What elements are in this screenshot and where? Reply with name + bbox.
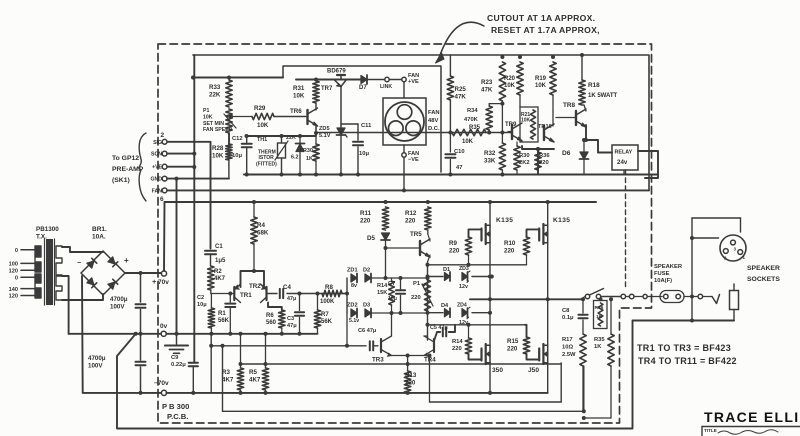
svg-text:8v: 8v bbox=[351, 283, 357, 289]
wire upper gate bias line bbox=[428, 263, 527, 267]
svg-text:ISTOR: ISTOR bbox=[259, 155, 275, 161]
capacitor C3 47u bbox=[287, 292, 304, 336]
svg-text:D1: D1 bbox=[443, 267, 450, 273]
wire pin GND to R28 bbox=[167, 177, 229, 181]
svg-text:K135: K135 bbox=[553, 217, 570, 224]
svg-text:R3: R3 bbox=[222, 369, 230, 376]
svg-text:120: 120 bbox=[9, 294, 18, 300]
terminal 0V bbox=[160, 323, 168, 336]
svg-text:R14: R14 bbox=[452, 339, 463, 345]
svg-text:−70v: −70v bbox=[154, 380, 169, 387]
capacitor C4 47u bbox=[280, 284, 296, 302]
capacitor 4700u 100V upper label bbox=[110, 296, 128, 310]
svg-text:12v: 12v bbox=[459, 284, 468, 290]
wire pin FAN long line bbox=[167, 188, 649, 192]
svg-text:10K: 10K bbox=[257, 122, 269, 129]
title TRACE ELLIOT bbox=[704, 409, 800, 425]
wire thermistor network top bbox=[245, 134, 317, 138]
svg-text:220: 220 bbox=[411, 295, 421, 301]
svg-text:P1: P1 bbox=[413, 281, 421, 287]
svg-text:+VE: +VE bbox=[152, 165, 162, 171]
wire TR7 emitter node to C11 bbox=[341, 123, 358, 125]
resistor R19 10K bbox=[535, 55, 556, 112]
svg-text:C4: C4 bbox=[283, 284, 291, 291]
diode D1 bbox=[443, 267, 450, 281]
svg-text:−: − bbox=[77, 260, 81, 267]
wire TR1 base bbox=[211, 290, 233, 294]
transistor TR9 bbox=[505, 122, 522, 141]
wire bridge - output to -70V rail bbox=[82, 276, 117, 393]
relay coil box bbox=[612, 145, 638, 170]
wire signal line TR2 to ladder bbox=[267, 293, 348, 295]
resistor R12 220 bbox=[405, 207, 431, 230]
resistor R7 56K bbox=[314, 292, 332, 334]
wire lower gate bias line bbox=[428, 323, 525, 327]
svg-text:220: 220 bbox=[452, 346, 462, 352]
svg-text:FAN: FAN bbox=[428, 110, 440, 116]
PB300 PCB dashed border outline bbox=[158, 44, 652, 423]
svg-text:R1: R1 bbox=[218, 311, 226, 317]
svg-text:TR1 TO TR3 = BF423: TR1 TO TR3 = BF423 bbox=[637, 343, 731, 353]
diode ZD1 bbox=[347, 268, 358, 283]
svg-text:BR1.: BR1. bbox=[92, 226, 107, 233]
svg-text:TR1: TR1 bbox=[240, 292, 252, 299]
svg-text:ZD3: ZD3 bbox=[459, 266, 469, 272]
wire TR3 base reference line bbox=[209, 313, 366, 393]
svg-text:1K: 1K bbox=[306, 156, 313, 162]
wire relay return hook bbox=[638, 151, 658, 178]
svg-text:R4: R4 bbox=[257, 222, 265, 229]
resistor R18 1K 5WATT bbox=[579, 53, 618, 105]
wire secondary bottom to bridge bbox=[62, 294, 103, 300]
wire upper bias line bbox=[384, 276, 430, 280]
svg-text:350: 350 bbox=[492, 367, 503, 374]
resistor R20 10K bbox=[504, 55, 523, 107]
svg-text:10K: 10K bbox=[462, 139, 474, 145]
svg-text:RESET AT 1.7A APPROX,: RESET AT 1.7A APPROX, bbox=[491, 25, 600, 35]
svg-text:D3: D3 bbox=[363, 303, 370, 309]
MOSFET K135 upper left bbox=[482, 217, 514, 244]
fan motor box bbox=[383, 98, 426, 145]
svg-text:48V: 48V bbox=[428, 118, 438, 124]
svg-text:R5: R5 bbox=[249, 369, 257, 376]
ground symbol bbox=[165, 334, 188, 354]
svg-text:10K: 10K bbox=[504, 83, 516, 89]
svg-text:R7: R7 bbox=[321, 312, 329, 318]
svg-text:0v: 0v bbox=[160, 323, 168, 330]
svg-text:R35: R35 bbox=[594, 337, 605, 343]
svg-text:4700μ: 4700μ bbox=[88, 355, 106, 362]
resistor R35 10K bbox=[452, 125, 486, 145]
wire speaker socket feed bbox=[692, 218, 741, 297]
capacitor C7 10u bbox=[388, 278, 405, 315]
svg-text:C9: C9 bbox=[171, 355, 179, 361]
svg-text:CUTOUT AT 1A APPROX.: CUTOUT AT 1A APPROX. bbox=[487, 13, 595, 23]
svg-text:BD679: BD679 bbox=[327, 69, 346, 75]
resistor R31 10K bbox=[293, 78, 319, 104]
svg-text:5.1v: 5.1v bbox=[349, 318, 359, 324]
svg-text:4K7: 4K7 bbox=[222, 376, 234, 383]
svg-text:5.1V: 5.1V bbox=[319, 133, 331, 139]
capacitor C9 0.22u bbox=[171, 355, 198, 395]
diode D7 bbox=[355, 75, 384, 91]
svg-text:220: 220 bbox=[539, 160, 549, 166]
wire secondary top to bridge bbox=[62, 247, 103, 252]
capacitor C8 0.1u bbox=[562, 297, 588, 334]
transformer primary windings bbox=[35, 246, 41, 298]
svg-text:TR3: TR3 bbox=[372, 357, 384, 364]
wire -70V rail bbox=[166, 391, 547, 395]
svg-text:TITLE: TITLE bbox=[704, 428, 717, 433]
wire K135-1 drain and source bbox=[488, 200, 492, 301]
svg-text:To GP12: To GP12 bbox=[112, 155, 139, 162]
wire -70V feed bbox=[117, 392, 162, 394]
diode ZD2 bbox=[347, 303, 358, 318]
capacitor C5 47u bbox=[430, 325, 455, 341]
svg-text:56K: 56K bbox=[218, 318, 230, 324]
svg-text:70v: 70v bbox=[158, 279, 169, 286]
diode D4 bbox=[441, 303, 450, 317]
zener ZD6 6.2V bbox=[286, 134, 305, 177]
wire upper diode line bbox=[428, 275, 494, 279]
resistor R29 10K bbox=[229, 105, 305, 129]
svg-text:100: 100 bbox=[9, 262, 18, 268]
svg-text:R18: R18 bbox=[588, 82, 600, 89]
transistor TR7 BD679 bbox=[321, 69, 347, 128]
wire feedback drop left bbox=[221, 344, 225, 412]
resistor R14 220 bbox=[452, 325, 482, 360]
svg-text:SPEAKER: SPEAKER bbox=[654, 264, 683, 270]
svg-text:47K: 47K bbox=[481, 86, 493, 93]
capacitor C13 4700u 100V upper bbox=[136, 271, 146, 336]
wire +70V riser to top rail bbox=[163, 202, 166, 271]
link connector speaker line bbox=[621, 294, 662, 299]
svg-text:33K: 33K bbox=[484, 157, 496, 164]
svg-text:K135: K135 bbox=[496, 217, 513, 224]
wire bridge + output to +70V terminal bbox=[125, 272, 162, 274]
svg-text:0: 0 bbox=[15, 275, 18, 281]
svg-text:220: 220 bbox=[449, 247, 460, 254]
svg-text:120: 120 bbox=[9, 269, 18, 275]
terminal -70V bbox=[154, 380, 169, 396]
svg-text:1μ5: 1μ5 bbox=[215, 258, 226, 264]
svg-text:R10: R10 bbox=[504, 240, 516, 247]
svg-text:10K: 10K bbox=[203, 114, 213, 120]
svg-text:R25: R25 bbox=[455, 86, 467, 93]
wire output node line bbox=[470, 298, 581, 300]
svg-text:D6: D6 bbox=[562, 150, 571, 157]
capacitor C11 10u bbox=[353, 123, 372, 175]
svg-text:10K: 10K bbox=[212, 152, 224, 159]
svg-text:J50: J50 bbox=[528, 367, 539, 374]
svg-text:1K: 1K bbox=[596, 314, 603, 320]
resistor R28 10K bbox=[212, 144, 232, 179]
svg-text:47K: 47K bbox=[455, 93, 467, 100]
svg-text:10μ: 10μ bbox=[388, 296, 397, 302]
svg-text:2.5W: 2.5W bbox=[562, 352, 576, 358]
svg-text:100V: 100V bbox=[88, 362, 103, 369]
svg-text:R36: R36 bbox=[539, 153, 550, 159]
svg-text:10μ: 10μ bbox=[232, 153, 242, 159]
capacitor C14 4700u 100V lower bbox=[136, 334, 146, 395]
wire fan circuit bottom rail bbox=[244, 173, 658, 177]
connector brace bbox=[139, 133, 146, 201]
resistor R33 22K bbox=[209, 80, 232, 107]
svg-text:R2: R2 bbox=[214, 269, 222, 275]
svg-text:4700μ: 4700μ bbox=[110, 296, 128, 303]
svg-text:TR6: TR6 bbox=[290, 108, 302, 115]
svg-text:C7: C7 bbox=[388, 281, 395, 287]
svg-text:C1: C1 bbox=[215, 244, 223, 250]
speaker fuse 10A bbox=[660, 291, 698, 303]
svg-text:ZD4: ZD4 bbox=[457, 303, 467, 309]
capacitor C1 1u5 bbox=[205, 244, 226, 266]
speaker DIN socket bbox=[720, 235, 746, 261]
diode ZD4 bbox=[457, 303, 470, 327]
resistor R11 220 bbox=[360, 207, 389, 230]
svg-text:R20: R20 bbox=[504, 76, 516, 82]
svg-text:TR8: TR8 bbox=[563, 102, 576, 109]
fan sub-circuit box bbox=[283, 66, 441, 172]
svg-text:0.22μ: 0.22μ bbox=[171, 362, 186, 368]
svg-text:C8: C8 bbox=[562, 308, 570, 314]
svg-text:PB1300: PB1300 bbox=[36, 226, 59, 233]
jack plug symbol bbox=[712, 295, 720, 304]
svg-text:R30: R30 bbox=[519, 153, 530, 159]
svg-text:470K: 470K bbox=[464, 117, 479, 123]
svg-text:C6 47μ: C6 47μ bbox=[358, 328, 377, 334]
svg-text:1K 5WATT: 1K 5WATT bbox=[588, 93, 618, 99]
svg-text:SET MIN: SET MIN bbox=[203, 121, 224, 127]
svg-text:C12: C12 bbox=[232, 136, 243, 142]
wire TR3 TR4 emitter join bbox=[392, 354, 425, 358]
svg-text:SIG: SIG bbox=[153, 140, 162, 146]
preset P1 10K fan speed bbox=[203, 108, 236, 133]
MOSFET J50 lower right bbox=[528, 344, 548, 374]
wire TR7 collector line bbox=[296, 79, 361, 81]
wire feedback line B bbox=[241, 362, 562, 366]
bridge rectifier BR1 bbox=[77, 251, 129, 295]
svg-text:6.2: 6.2 bbox=[291, 155, 299, 161]
wire feedback line lower bbox=[223, 366, 584, 411]
connector SK1 pins 2-6 bbox=[150, 132, 167, 203]
svg-text:22K: 22K bbox=[286, 135, 296, 141]
svg-text:R31: R31 bbox=[293, 85, 305, 92]
transistor TR2 bbox=[249, 283, 267, 303]
resistor R5 4K7 bbox=[249, 332, 269, 395]
svg-text:100K: 100K bbox=[320, 299, 335, 305]
outer solid box of power amp board bbox=[193, 55, 649, 190]
terminal FAN -VE bbox=[402, 145, 419, 190]
preset P2 220 bbox=[411, 280, 433, 311]
label speaker sockets bbox=[747, 265, 780, 283]
wire TR1 TR2 emitter loop bbox=[241, 244, 265, 287]
wire ladder input junction bbox=[342, 292, 349, 296]
capacitor 4700u 100V lower label bbox=[88, 355, 106, 369]
svg-text:TR4 TO TR11 = BF422: TR4 TO TR11 = BF422 bbox=[638, 356, 737, 366]
resistor R15 220 bbox=[507, 325, 539, 360]
thermistor TH1 bbox=[256, 134, 288, 177]
capacitor C6 47u bbox=[358, 328, 377, 350]
svg-text:R16: R16 bbox=[595, 305, 604, 311]
resistor R30a 1K bbox=[303, 127, 319, 177]
svg-text:47μ: 47μ bbox=[287, 296, 296, 302]
terminal FAN +VE bbox=[402, 73, 419, 98]
wire 0V rail bbox=[166, 332, 317, 336]
resistor R3 4K7 bbox=[222, 332, 244, 395]
svg-text:R13: R13 bbox=[405, 372, 417, 379]
svg-text:220: 220 bbox=[405, 217, 416, 224]
svg-text:D.C.: D.C. bbox=[428, 126, 440, 132]
capacitor C12 10u bbox=[232, 136, 252, 177]
svg-text:68K: 68K bbox=[257, 229, 269, 236]
svg-text:SOCKETS: SOCKETS bbox=[747, 276, 780, 283]
wire pin +VE bbox=[167, 166, 194, 168]
bridge rectifier BR1 label bbox=[92, 226, 107, 241]
wire TR9 TR10 emitters bbox=[522, 146, 554, 175]
svg-text:TR5: TR5 bbox=[410, 231, 422, 238]
svg-text:TR7: TR7 bbox=[321, 86, 333, 92]
svg-text:TH1: TH1 bbox=[257, 137, 267, 143]
svg-text:10μ: 10μ bbox=[197, 302, 207, 308]
svg-text:P B 300: P B 300 bbox=[162, 402, 189, 411]
resistor R36 220 bbox=[535, 147, 551, 175]
MOSFET J50 lower left bbox=[482, 344, 504, 374]
svg-text:P.C.B.: P.C.B. bbox=[167, 412, 188, 421]
svg-text:TR9: TR9 bbox=[505, 122, 517, 128]
wire secondary centre tap to 0V rail bbox=[62, 276, 69, 334]
label To GP12 PREAMP SK1 bbox=[112, 155, 144, 184]
resistor R4 68K bbox=[251, 202, 269, 244]
wire TR5 emitter to gate line bbox=[426, 262, 430, 340]
svg-text:100V: 100V bbox=[110, 303, 125, 310]
wire fuse to jack bbox=[690, 294, 712, 322]
svg-text:−VE: −VE bbox=[408, 157, 419, 163]
svg-text:ZD1: ZD1 bbox=[347, 268, 358, 274]
svg-text:R15: R15 bbox=[507, 338, 519, 345]
svg-text:R6: R6 bbox=[266, 313, 274, 319]
svg-text:R11: R11 bbox=[360, 210, 372, 217]
svg-text:47μ: 47μ bbox=[287, 323, 297, 329]
svg-text:10K: 10K bbox=[293, 92, 305, 99]
svg-text:10Ω: 10Ω bbox=[562, 345, 573, 351]
svg-text:1K: 1K bbox=[594, 344, 602, 350]
transformer primary taps with voltage labels bbox=[9, 248, 35, 300]
svg-text:P1: P1 bbox=[203, 108, 209, 114]
svg-text:C2: C2 bbox=[197, 295, 204, 301]
transistor TR8 bbox=[556, 102, 586, 127]
resistor R34 470K bbox=[464, 104, 492, 135]
resistor R16 1K boxed bbox=[594, 297, 608, 328]
svg-text:10A(F): 10A(F) bbox=[654, 278, 672, 284]
svg-text:FUSE: FUSE bbox=[654, 271, 670, 277]
wire source line lower bbox=[430, 363, 562, 402]
diode D3 bbox=[349, 303, 428, 325]
svg-text:47: 47 bbox=[456, 165, 462, 171]
capacitor C2 10u bbox=[197, 292, 235, 336]
wire TR2 collector bbox=[268, 303, 282, 311]
resistor R6 560 bbox=[266, 310, 285, 336]
svg-text:D7: D7 bbox=[359, 85, 367, 91]
transistor TR10 bbox=[538, 112, 554, 142]
svg-text:10K: 10K bbox=[535, 83, 547, 89]
transistor TR1 bbox=[234, 284, 252, 303]
svg-text:(FITTED): (FITTED) bbox=[256, 162, 277, 168]
svg-text:0.1μ: 0.1μ bbox=[562, 315, 574, 321]
svg-text:ZD5: ZD5 bbox=[319, 126, 330, 132]
resistor R8 100K bbox=[320, 284, 342, 305]
svg-text:R14: R14 bbox=[377, 283, 388, 289]
transistor TR3 bbox=[372, 313, 392, 364]
capacitor C10 47u bbox=[445, 131, 464, 175]
svg-text:R28: R28 bbox=[212, 145, 224, 152]
terminal +70V bbox=[152, 271, 169, 286]
resistor R25 47K bbox=[447, 55, 466, 133]
svg-text:D2: D2 bbox=[363, 268, 370, 274]
wire relay bottom to rail bbox=[623, 170, 625, 175]
svg-text:4K7: 4K7 bbox=[214, 276, 226, 282]
wire pin SCN to screen line bbox=[167, 153, 194, 155]
resistor R17 10R 2.5W bbox=[562, 334, 586, 413]
svg-text:C11: C11 bbox=[361, 123, 372, 129]
svg-text:220: 220 bbox=[507, 345, 518, 352]
wire top rail left segment bbox=[191, 76, 283, 80]
resistor R32 33K bbox=[484, 133, 506, 175]
svg-text:R9: R9 bbox=[449, 240, 457, 247]
svg-text:R17: R17 bbox=[562, 337, 573, 343]
svg-text:R29: R29 bbox=[254, 105, 266, 112]
diode D5 bbox=[367, 233, 390, 278]
zener ZD5 5.1V bbox=[319, 126, 347, 175]
svg-text:140: 140 bbox=[9, 287, 18, 293]
MOSFET K135 upper right bbox=[539, 217, 570, 244]
svg-text:LINK: LINK bbox=[380, 84, 392, 90]
transformer secondary windings bbox=[56, 246, 62, 300]
label speaker fuse bbox=[654, 264, 683, 284]
svg-text:4K7: 4K7 bbox=[249, 376, 261, 383]
fan motor symbol bbox=[385, 102, 424, 141]
svg-text:R30: R30 bbox=[303, 148, 313, 154]
svg-text:24v: 24v bbox=[617, 159, 628, 166]
svg-text:+: + bbox=[152, 277, 157, 286]
diode D6 relay bbox=[562, 138, 589, 175]
svg-text:R19: R19 bbox=[535, 76, 547, 82]
transistor TR6 bbox=[290, 103, 318, 136]
resistor R21 10K boxed bbox=[520, 107, 538, 142]
diode D2 bbox=[351, 268, 386, 290]
annotation cutout reset text bbox=[487, 13, 600, 35]
svg-text:C3: C3 bbox=[287, 316, 294, 322]
svg-text:R8: R8 bbox=[325, 284, 333, 291]
svg-text:FAN: FAN bbox=[152, 188, 163, 194]
svg-text:R12: R12 bbox=[405, 210, 417, 217]
svg-text:D5: D5 bbox=[367, 235, 375, 242]
wire J50-2 source and drain bbox=[547, 299, 549, 393]
wire TR8 emitter to relay bbox=[584, 125, 612, 153]
resistor R13 220 bbox=[404, 356, 417, 395]
wire speaker return to 0V star point bbox=[117, 321, 734, 429]
svg-text:TR2: TR2 bbox=[249, 283, 261, 290]
svg-text:FAN SPEED: FAN SPEED bbox=[203, 127, 233, 133]
wire bias ladder left rail bbox=[346, 278, 348, 313]
wire speaker socket left bbox=[690, 236, 719, 240]
resistor R23 47K bbox=[481, 55, 506, 135]
svg-text:R34: R34 bbox=[467, 108, 478, 114]
link connector in fan supply bbox=[380, 77, 402, 90]
svg-text:D4: D4 bbox=[441, 303, 449, 309]
dummy load resistor bbox=[730, 284, 739, 321]
wire P1 to R28 column bbox=[228, 133, 230, 144]
